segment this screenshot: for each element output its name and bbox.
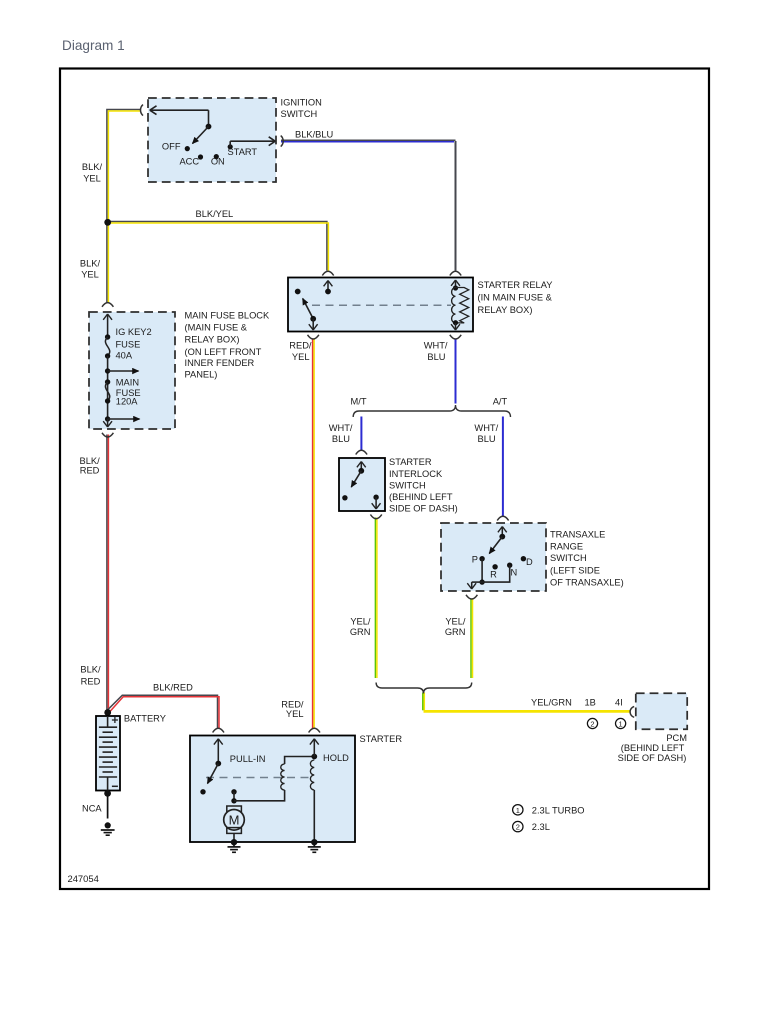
svg-text:4I: 4I [615,698,623,708]
svg-text:START: START [228,147,258,157]
svg-text:YEL: YEL [83,174,101,184]
svg-text:N: N [511,568,518,578]
svg-text:BLU: BLU [427,352,445,362]
svg-text:FUSE: FUSE [116,339,141,349]
svg-text:IGNITION: IGNITION [281,98,322,108]
svg-text:RED/: RED/ [281,700,304,710]
svg-text:WHT/: WHT/ [329,423,353,433]
svg-text:SIDE OF DASH): SIDE OF DASH) [389,504,458,514]
svg-text:40A: 40A [116,350,133,360]
svg-text:BLK/: BLK/ [80,664,101,674]
svg-text:RED: RED [81,676,101,686]
svg-text:NCA: NCA [82,804,102,814]
svg-text:ACC: ACC [179,156,199,166]
svg-text:2: 2 [516,823,520,832]
svg-text:BLU: BLU [478,434,496,444]
svg-text:Diagram 1: Diagram 1 [62,38,125,53]
svg-text:(LEFT SIDE: (LEFT SIDE [550,565,600,575]
svg-text:(BEHIND LEFT: (BEHIND LEFT [389,492,453,502]
svg-text:GRN: GRN [350,627,371,637]
svg-text:OFF: OFF [162,141,181,151]
svg-text:(ON LEFT FRONT: (ON LEFT FRONT [185,347,262,357]
svg-text:M: M [229,812,240,827]
svg-text:IG KEY2: IG KEY2 [116,327,152,337]
svg-text:INNER FENDER: INNER FENDER [185,358,255,368]
svg-text:WHT/: WHT/ [474,423,498,433]
svg-text:120A: 120A [116,397,139,407]
svg-text:YEL: YEL [292,352,310,362]
svg-text:BLK/RED: BLK/RED [153,682,193,692]
svg-text:2.3L: 2.3L [532,822,550,832]
svg-text:(BEHIND LEFT: (BEHIND LEFT [621,743,685,753]
svg-text:2: 2 [590,719,594,728]
svg-text:1: 1 [619,719,623,728]
svg-text:MAIN: MAIN [116,378,139,388]
svg-text:YEL: YEL [286,709,304,719]
svg-text:PCM: PCM [666,733,687,743]
svg-text:D: D [526,557,533,567]
svg-text:YEL/GRN: YEL/GRN [531,698,572,708]
svg-text:M/T: M/T [351,396,367,406]
svg-text:PANEL): PANEL) [185,370,218,380]
svg-text:A/T: A/T [493,396,508,406]
svg-text:(IN MAIN FUSE &: (IN MAIN FUSE & [478,292,553,302]
svg-text:INTERLOCK: INTERLOCK [389,469,443,479]
svg-text:SIDE OF DASH): SIDE OF DASH) [618,753,687,763]
svg-text:RELAY BOX): RELAY BOX) [185,335,240,345]
svg-text:OF TRANSAXLE): OF TRANSAXLE) [550,577,624,587]
svg-text:STARTER: STARTER [360,734,403,744]
svg-text:BLK/BLU: BLK/BLU [295,130,333,140]
svg-text:RED/: RED/ [289,341,312,351]
svg-text:R: R [490,569,497,579]
svg-text:WHT/: WHT/ [424,341,448,351]
svg-text:BLU: BLU [332,434,350,444]
svg-text:ON: ON [211,157,225,167]
svg-text:BATTERY: BATTERY [124,714,166,724]
svg-text:RED: RED [80,466,100,476]
svg-text:YEL/: YEL/ [445,616,466,626]
svg-text:PULL-IN: PULL-IN [230,754,266,764]
svg-text:TRANSAXLE: TRANSAXLE [550,530,605,540]
svg-text:RELAY BOX): RELAY BOX) [478,305,533,315]
svg-text:SWITCH: SWITCH [389,480,426,490]
svg-text:BLK/: BLK/ [80,259,101,269]
svg-text:STARTER: STARTER [389,457,432,467]
svg-text:HOLD: HOLD [323,753,349,763]
svg-text:BLK/: BLK/ [80,456,101,466]
svg-text:1B: 1B [585,698,596,708]
svg-text:BLK/YEL: BLK/YEL [196,209,234,219]
svg-text:2.3L TURBO: 2.3L TURBO [532,805,585,815]
svg-text:YEL: YEL [81,270,99,280]
svg-text:STARTER RELAY: STARTER RELAY [478,280,553,290]
svg-text:(MAIN FUSE &: (MAIN FUSE & [185,323,248,333]
svg-text:GRN: GRN [445,627,466,637]
svg-text:1: 1 [516,806,520,815]
svg-text:YEL/: YEL/ [350,616,371,626]
svg-text:247054: 247054 [68,873,99,884]
svg-text:SWITCH: SWITCH [281,109,318,119]
svg-text:MAIN FUSE BLOCK: MAIN FUSE BLOCK [185,311,271,321]
svg-text:BLK/: BLK/ [82,162,103,172]
svg-text:P: P [472,555,478,565]
svg-text:RANGE: RANGE [550,542,583,552]
svg-text:SWITCH: SWITCH [550,553,587,563]
